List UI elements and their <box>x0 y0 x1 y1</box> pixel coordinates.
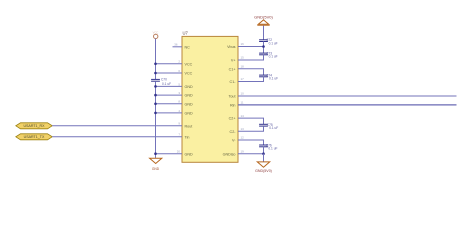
svg-text:NC: NC <box>185 45 191 49</box>
svg-text:GND: GND <box>152 167 160 171</box>
svg-text:17: 17 <box>241 77 245 81</box>
svg-text:VCC: VCC <box>153 31 159 35</box>
svg-text:15: 15 <box>241 56 245 60</box>
svg-text:18: 18 <box>241 65 245 69</box>
svg-text:GND(5V0): GND(5V0) <box>254 15 273 20</box>
wire Rin long <box>238 104 457 106</box>
junction <box>154 85 157 88</box>
wire Vbus pin 16 <box>238 46 264 48</box>
svg-text:C2-: C2- <box>230 130 237 134</box>
capacitor C70 <box>151 78 171 86</box>
svg-text:GND: GND <box>185 102 194 106</box>
svg-text:0.1 uF: 0.1 uF <box>269 55 278 59</box>
wire C75 to C2- pin 13 <box>238 126 264 131</box>
junction <box>154 112 157 115</box>
wire GNDiso pin 19 <box>238 153 264 155</box>
svg-text:GND(5V0): GND(5V0) <box>255 169 272 173</box>
svg-text:Tout: Tout <box>229 95 236 99</box>
capacitor C72 <box>259 38 278 45</box>
capacitor C75 <box>259 123 278 130</box>
svg-text:USART1_TX: USART1_TX <box>24 135 45 139</box>
capacitor C73 <box>259 52 278 59</box>
wire GND pin 3 <box>156 94 183 96</box>
svg-text:Tin: Tin <box>185 135 190 139</box>
wire left rail GND segment <box>155 81 157 157</box>
svg-text:36: 36 <box>174 43 178 47</box>
svg-text:VCC: VCC <box>185 62 193 66</box>
wire C76 to GND node <box>263 147 265 154</box>
port USART1_TX <box>16 134 52 140</box>
wire USART1_TX to Tin <box>52 136 182 138</box>
svg-text:GNDiso: GNDiso <box>223 152 236 156</box>
svg-text:GND: GND <box>185 85 194 89</box>
svg-text:U7: U7 <box>183 30 189 35</box>
svg-text:Vbus: Vbus <box>227 45 236 49</box>
wire VCC pin 6 <box>156 72 183 74</box>
wire VCC pin 2 <box>156 63 183 65</box>
wire GND pin 20 <box>156 153 183 155</box>
wire GND pin 5 <box>156 85 183 87</box>
wire C74 to C1- pin 17 <box>238 77 264 82</box>
port USART1_RX <box>16 123 52 129</box>
wire C1+ pin 18 <box>238 69 264 75</box>
wire GND pin 8 <box>156 103 183 105</box>
junction <box>154 94 157 97</box>
svg-text:12: 12 <box>241 136 245 140</box>
junction <box>154 103 157 106</box>
capacitor C76 <box>259 144 277 151</box>
wire C73 to V+ pin 15 <box>238 55 264 60</box>
wire V- pin 12 <box>238 140 264 145</box>
svg-text:0.1 uF: 0.1 uF <box>269 77 278 81</box>
svg-text:20: 20 <box>177 150 181 154</box>
wire C72 to C73 <box>263 42 265 54</box>
wire USART1_RX to Rout <box>52 125 182 127</box>
NC pin stub <box>173 46 183 48</box>
junction <box>262 152 265 155</box>
junction <box>154 63 157 66</box>
svg-text:C1+: C1+ <box>229 67 236 71</box>
svg-text:Rin: Rin <box>230 104 236 108</box>
junction <box>154 72 157 75</box>
ground symbol right <box>255 162 272 173</box>
ground symbol left <box>150 158 162 172</box>
junction <box>262 45 265 48</box>
wire left rail VCC segment <box>155 39 157 80</box>
svg-text:C2+: C2+ <box>229 117 236 121</box>
svg-text:14: 14 <box>241 114 245 118</box>
svg-text:USART1_RX: USART1_RX <box>23 124 45 128</box>
svg-text:13: 13 <box>241 127 245 131</box>
svg-text:16: 16 <box>241 42 245 46</box>
svg-text:0.1 uF: 0.1 uF <box>269 126 278 130</box>
svg-text:C1-: C1- <box>230 80 237 84</box>
svg-text:GND: GND <box>185 112 194 116</box>
svg-text:VCC: VCC <box>185 72 193 76</box>
svg-text:Rout: Rout <box>185 124 193 128</box>
junction <box>154 152 157 155</box>
power port GND arrow (top) <box>254 15 273 26</box>
wire C2+ pin 14 <box>238 118 264 124</box>
capacitor C74 <box>259 74 278 81</box>
wire Tout long <box>238 95 457 97</box>
svg-text:0.1 uF: 0.1 uF <box>162 82 171 86</box>
svg-text:11: 11 <box>241 101 244 105</box>
wire GND pin 4 <box>156 112 183 114</box>
IC U7 body <box>182 36 238 162</box>
svg-text:0.1 uF: 0.1 uF <box>268 147 277 151</box>
power port circle (VCC) <box>154 34 158 38</box>
svg-text:0.1 uF: 0.1 uF <box>269 41 278 45</box>
wire to ground <box>263 154 265 162</box>
svg-text:GND: GND <box>185 152 194 156</box>
svg-text:19: 19 <box>241 149 245 153</box>
wire rail top to C72 <box>263 26 265 40</box>
svg-text:10: 10 <box>241 92 245 96</box>
svg-text:GND: GND <box>185 94 194 98</box>
svg-text:V+: V+ <box>231 59 236 63</box>
